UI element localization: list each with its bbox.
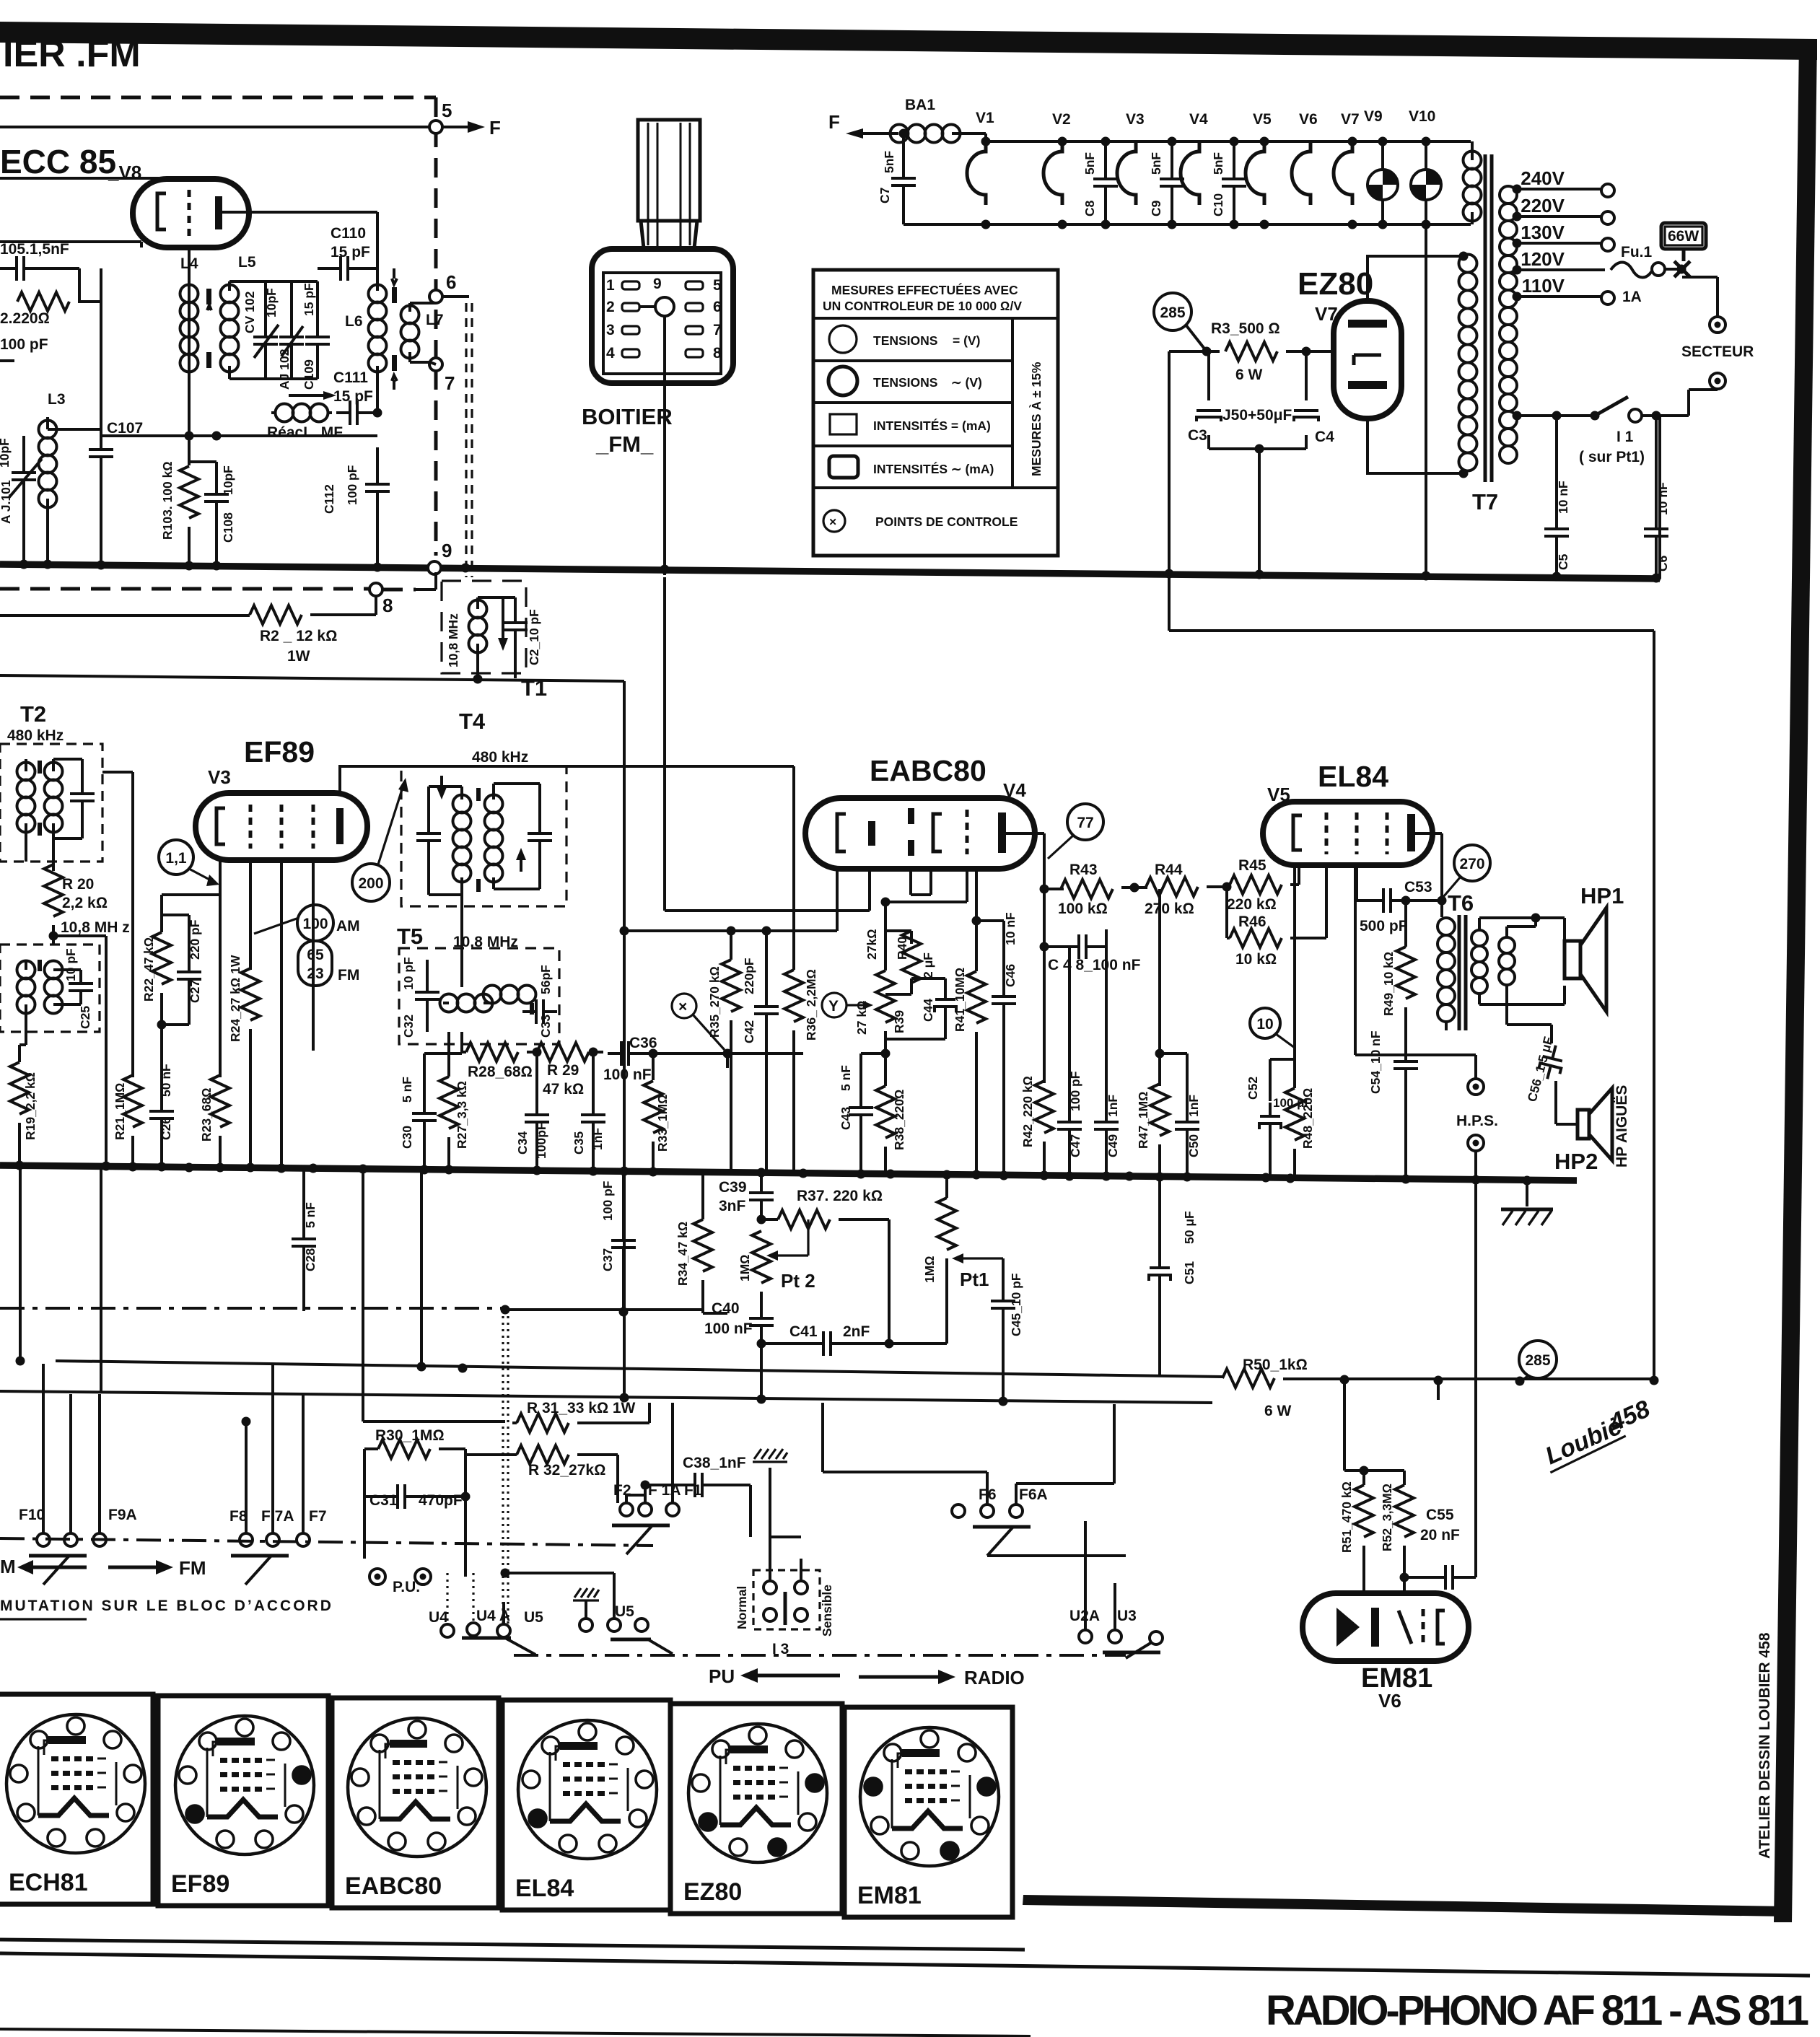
- svg-text:1W: 1W: [287, 648, 310, 665]
- svg-text:8: 8: [382, 595, 393, 616]
- svg-text:R52_3,3MΩ: R52_3,3MΩ: [1380, 1484, 1394, 1551]
- wire C36 node down: [726, 1053, 729, 1068]
- svg-text:3nF: 3nF: [719, 1198, 746, 1214]
- svg-text:Y: Y: [828, 998, 839, 1015]
- wire B+ node: [1169, 351, 1220, 570]
- svg-text:5nF: 5nF: [1082, 152, 1097, 175]
- svg-text:C31: C31: [369, 1492, 398, 1509]
- wire row3 R31: [363, 1420, 505, 1423]
- svg-text:4: 4: [606, 345, 615, 362]
- svg-text:20 nF: 20 nF: [1420, 1527, 1460, 1543]
- wire dashed FM-box top edge: [0, 96, 436, 100]
- svg-text:C109: C109: [302, 359, 316, 390]
- bottom-left rule line: [0, 2029, 1031, 2036]
- svg-text:EL84: EL84: [1318, 760, 1388, 793]
- svg-text:V3: V3: [208, 766, 231, 788]
- svg-text:R3_500 Ω: R3_500 Ω: [1211, 320, 1280, 337]
- svg-text:100 kΩ: 100 kΩ: [1058, 901, 1108, 917]
- svg-text:C39: C39: [719, 1179, 747, 1196]
- svg-text:HP AIGUËS: HP AIGUËS: [1614, 1085, 1630, 1168]
- svg-text:INTENSITÉS = (mA): INTENSITÉS = (mA): [873, 418, 991, 433]
- svg-text:MESURES EFFECTUÉES AVEC: MESURES EFFECTUÉES AVEC: [831, 282, 1018, 297]
- svg-text:EF89: EF89: [171, 1870, 229, 1898]
- wire EZ80 plate to T7: [1368, 256, 1464, 301]
- wire switch risers: [363, 1169, 421, 1421]
- svg-text:MESURES À ± 15%: MESURES À ± 15%: [1028, 362, 1044, 476]
- right border bar: [1774, 41, 1817, 1922]
- wire dashed AM line: [0, 587, 369, 591]
- svg-text:1A: 1A: [1622, 289, 1642, 305]
- svg-text:MUTATION SUR LE BLOC D’ACC: MUTATION SUR LE BLOC D’ACCORD: [0, 1598, 333, 1614]
- svg-text:F: F: [489, 117, 501, 139]
- svg-text:C2_10 pF: C2_10 pF: [527, 609, 541, 665]
- svg-text:100 nF: 100 nF: [603, 1066, 652, 1083]
- svg-text:RADIO: RADIO: [964, 1667, 1025, 1688]
- svg-text:100 nF: 100 nF: [704, 1320, 753, 1337]
- ground symbol: [1526, 1180, 1528, 1206]
- svg-text:TENSIONS: TENSIONS: [873, 333, 937, 348]
- wire riser to EM81 area: [1124, 1554, 1127, 1557]
- svg-text:C7: C7: [878, 188, 892, 203]
- svg-text:EM81: EM81: [1361, 1663, 1432, 1694]
- svg-text:F 1A: F 1A: [648, 1482, 681, 1499]
- svg-text:480 kHz: 480 kHz: [7, 727, 64, 744]
- dash-dot PU-RADIO link: [514, 1654, 1126, 1657]
- bottom rule line B: [0, 1953, 1810, 1976]
- svg-text:15 pF: 15 pF: [331, 244, 370, 260]
- svg-text:R45: R45: [1238, 857, 1266, 874]
- svg-text:220pF: 220pF: [742, 958, 756, 994]
- svg-text:C3: C3: [1188, 427, 1207, 444]
- svg-text:R24_27 kΩ 1W: R24_27 kΩ 1W: [228, 955, 242, 1042]
- svg-text:R103. 100 kΩ: R103. 100 kΩ: [160, 461, 175, 540]
- svg-text:220 kΩ: 220 kΩ: [1227, 896, 1277, 913]
- wire T2 to grid line: [102, 772, 133, 1077]
- svg-text:ECC 85: ECC 85: [0, 143, 116, 180]
- measure circle 77: [1067, 804, 1103, 840]
- svg-text:×: ×: [678, 999, 687, 1015]
- svg-text:6: 6: [446, 271, 456, 293]
- svg-text:C33: C33: [538, 1015, 553, 1038]
- svg-text:R49_10 kΩ: R49_10 kΩ: [1381, 952, 1396, 1016]
- tube socket EZ80: [670, 1704, 842, 1914]
- svg-text:V5: V5: [1253, 111, 1272, 128]
- svg-text:C25: C25: [78, 1006, 92, 1029]
- wire mech link row: [0, 1307, 505, 1310]
- svg-text:A J.101: A J.101: [0, 480, 13, 524]
- svg-text:L3: L3: [48, 391, 66, 408]
- svg-text:50 μF: 50 μF: [1182, 1211, 1196, 1244]
- svg-text:U5: U5: [524, 1609, 543, 1626]
- node 8: [369, 583, 382, 596]
- svg-text:EABC80: EABC80: [870, 754, 986, 787]
- svg-text:1: 1: [606, 277, 615, 294]
- svg-text:1,1: 1,1: [165, 850, 187, 867]
- wire long vertical from bus2: [623, 681, 626, 1399]
- svg-text:R30_1MΩ: R30_1MΩ: [375, 1427, 445, 1444]
- svg-text:T6: T6: [1448, 890, 1474, 916]
- measure circle 200: [352, 864, 390, 901]
- svg-text:HP1: HP1: [1580, 883, 1624, 908]
- svg-text:2nF: 2nF: [843, 1323, 870, 1340]
- svg-text:10 kΩ: 10 kΩ: [1235, 951, 1277, 968]
- inner frame bottom-right thick line: [1023, 1895, 1788, 1916]
- svg-text:100 pF: 100 pF: [600, 1180, 615, 1221]
- top border bar: [0, 22, 1817, 60]
- svg-text:10pF: 10pF: [0, 438, 12, 468]
- svg-text:7: 7: [445, 372, 455, 394]
- svg-text:C37: C37: [600, 1248, 615, 1271]
- tap 240V: [1517, 188, 1601, 190]
- svg-text:10: 10: [1256, 1016, 1273, 1033]
- svg-text:R35_270 kΩ: R35_270 kΩ: [707, 966, 722, 1038]
- signature Loubier 458: [1537, 1395, 1657, 1472]
- svg-text:480 kHz: 480 kHz: [472, 749, 528, 766]
- bottom rule line A: [0, 1940, 1025, 1950]
- wire F output line: [0, 126, 429, 128]
- svg-text:Pt1: Pt1: [960, 1269, 989, 1290]
- wire triode grid down: [966, 869, 968, 902]
- svg-text:V2: V2: [1052, 111, 1071, 128]
- svg-text:R33_1MΩ: R33_1MΩ: [655, 1094, 670, 1152]
- svg-text:V6: V6: [1378, 1690, 1401, 1712]
- node 7: [429, 358, 442, 371]
- svg-text:R50_1kΩ: R50_1kΩ: [1243, 1357, 1308, 1373]
- svg-text:L6: L6: [345, 313, 363, 330]
- svg-text:M: M: [0, 1556, 16, 1577]
- connector BOITIER FM body: [592, 249, 733, 383]
- svg-text:FM: FM: [338, 967, 359, 984]
- svg-text:AM: AM: [336, 918, 360, 934]
- tube socket EF89: [158, 1696, 328, 1906]
- core marks between L6 L7: [392, 287, 397, 303]
- measure circle 285: [1154, 293, 1191, 330]
- svg-text:BA1: BA1: [905, 97, 935, 113]
- wire node6 right: [442, 295, 469, 298]
- mechanical link dotted vertical: [503, 1310, 508, 1628]
- switch I3 Normal Sensible: [753, 1570, 820, 1629]
- svg-text:J50+50μF: J50+50μF: [1222, 407, 1292, 424]
- svg-text:POINTS DE CONTROLE: POINTS DE CONTROLE: [875, 514, 1018, 529]
- svg-text:R 29: R 29: [547, 1062, 579, 1079]
- wire EF89 screen down: [280, 860, 283, 1168]
- terminal PU left: [369, 1569, 385, 1585]
- svg-text:C4: C4: [1315, 429, 1334, 445]
- svg-text:5nF: 5nF: [1211, 152, 1225, 175]
- svg-text:F 7A: F 7A: [261, 1508, 294, 1525]
- svg-text:IER .FM: IER .FM: [3, 33, 141, 75]
- wire top coupling: [48, 428, 101, 431]
- wire audio row1: [56, 1361, 1222, 1377]
- svg-text:U4 A: U4 A: [476, 1608, 510, 1624]
- node 9: [428, 561, 441, 574]
- wire ECC85 cathode to left: [0, 242, 141, 247]
- svg-text:U5: U5: [615, 1603, 634, 1620]
- svg-text:R47_1MΩ: R47_1MΩ: [1136, 1091, 1150, 1149]
- svg-text:INTENSITÉS ∼ (mA): INTENSITÉS ∼ (mA): [873, 461, 994, 476]
- wire grid tap: [162, 873, 220, 915]
- svg-text:L7: L7: [426, 312, 444, 328]
- svg-text:C9: C9: [1149, 200, 1163, 216]
- measure circle 285: [1519, 1341, 1557, 1378]
- svg-text:23: 23: [307, 965, 323, 982]
- tube socket EL84: [502, 1700, 670, 1910]
- svg-text:T4: T4: [459, 709, 486, 734]
- measure circle 270: [1454, 845, 1490, 881]
- svg-text:10,8 MH z: 10,8 MH z: [61, 919, 130, 936]
- svg-text:UN CONTROLEUR DE 10 000 Ω/V: UN CONTROLEUR DE 10 000 Ω/V: [823, 299, 1022, 313]
- svg-text:R36_ 2,2MΩ: R36_ 2,2MΩ: [804, 969, 818, 1041]
- svg-text:65: 65: [307, 947, 324, 963]
- svg-text:100 pF: 100 pF: [345, 465, 359, 505]
- wire B+ feed frame: [1169, 570, 1654, 1380]
- svg-text:×: ×: [829, 514, 836, 529]
- svg-text:C43: C43: [839, 1107, 853, 1130]
- svg-text:27 kΩ: 27 kΩ: [854, 1000, 869, 1035]
- wire ECC85 grid to left: [0, 177, 159, 180]
- svg-text:∼ (V): ∼ (V): [951, 375, 982, 390]
- svg-text:47 kΩ: 47 kΩ: [543, 1081, 584, 1098]
- svg-text:6 W: 6 W: [1264, 1403, 1292, 1419]
- svg-text:EM81: EM81: [857, 1882, 922, 1909]
- svg-text:77: 77: [1077, 815, 1093, 831]
- svg-text:470pF: 470pF: [419, 1492, 463, 1509]
- resistor R2 12k 1W: [0, 614, 250, 617]
- svg-text:9: 9: [653, 276, 662, 292]
- svg-text:8: 8: [713, 345, 722, 362]
- svg-text:C32: C32: [401, 1015, 416, 1038]
- svg-text:F7: F7: [309, 1508, 327, 1525]
- svg-text:1MΩ: 1MΩ: [738, 1254, 752, 1282]
- svg-text:285: 285: [1525, 1352, 1550, 1369]
- svg-text:ECH81: ECH81: [9, 1869, 88, 1896]
- dash-dot FM link left: [0, 1538, 653, 1546]
- svg-text:2,2 kΩ: 2,2 kΩ: [62, 895, 108, 911]
- tube socket EM81: [844, 1707, 1012, 1917]
- measure circle 100 AM: [297, 905, 333, 941]
- svg-text:V7: V7: [1341, 111, 1360, 128]
- svg-text:C110: C110: [331, 225, 366, 242]
- svg-text:R37. 220 kΩ: R37. 220 kΩ: [797, 1188, 883, 1204]
- tap 110V: [1517, 295, 1601, 298]
- svg-text:3: 3: [606, 322, 615, 338]
- svg-text:105.1,5nF: 105.1,5nF: [0, 241, 69, 258]
- svg-text:2: 2: [606, 299, 615, 315]
- svg-text:10 pF: 10 pF: [401, 957, 416, 990]
- svg-text:C54_10 nF: C54_10 nF: [1368, 1030, 1383, 1094]
- svg-text:5nF: 5nF: [882, 151, 896, 173]
- svg-text:EZ80: EZ80: [683, 1878, 742, 1906]
- svg-text:100: 100: [302, 916, 328, 932]
- ground hatch small: [753, 1449, 787, 1462]
- svg-text:F6A: F6A: [1019, 1486, 1048, 1503]
- svg-text:F1: F1: [684, 1482, 702, 1499]
- svg-text:R34_47 kΩ: R34_47 kΩ: [675, 1222, 690, 1286]
- svg-text:RADIO-PHONO AF 811 - AS 811: RADIO-PHONO AF 811 - AS 811: [1266, 1987, 1810, 2034]
- wire EF89 anode to T4: [340, 766, 794, 793]
- wire grid down: [188, 247, 191, 268]
- wire C3 C4 bottoms: [1209, 449, 1306, 570]
- terminal HPS top: [1468, 1079, 1484, 1095]
- svg-text:HP2: HP2: [1554, 1149, 1598, 1174]
- svg-text:F: F: [828, 111, 840, 133]
- wire EL84 anode: [1415, 833, 1442, 917]
- svg-text:R44: R44: [1155, 862, 1183, 878]
- svg-text:C52: C52: [1246, 1077, 1260, 1100]
- svg-text:5 nF: 5 nF: [839, 1065, 853, 1091]
- svg-text:V3: V3: [1126, 111, 1145, 128]
- tap 130V: [1517, 242, 1601, 245]
- svg-text:C30: C30: [400, 1126, 414, 1149]
- control point Y: [822, 993, 846, 1017]
- svg-text:V10: V10: [1409, 108, 1435, 125]
- svg-text:RéacL. MF: RéacL. MF: [267, 424, 343, 441]
- transformer T7 primary top coil: [1464, 152, 1482, 222]
- legend box MESURES: [813, 270, 1058, 556]
- svg-text:SECTEUR: SECTEUR: [1681, 343, 1754, 360]
- tube EM81 V6 magic eye: [1303, 1593, 1469, 1661]
- svg-text:Normal: Normal: [735, 1586, 749, 1629]
- wire EL84 g3 to HPS: [1355, 865, 1476, 1079]
- wire riser U2A: [1084, 1521, 1087, 1523]
- svg-text:C112: C112: [322, 484, 336, 514]
- svg-text:R 32_27kΩ: R 32_27kΩ: [528, 1462, 605, 1479]
- svg-text:L4: L4: [180, 255, 198, 272]
- tap 220V: [1517, 215, 1601, 218]
- wire af grid return: [624, 929, 837, 932]
- wire riser HPS to C55: [1474, 1180, 1477, 1577]
- control point X: [672, 994, 696, 1018]
- svg-text:R28_68Ω: R28_68Ω: [468, 1064, 533, 1080]
- svg-text:15 pF: 15 pF: [302, 283, 316, 316]
- heater chain bottom wire: [904, 223, 1471, 226]
- svg-text:R41_10MΩ: R41_10MΩ: [953, 968, 967, 1032]
- svg-text:= (V): = (V): [953, 333, 980, 348]
- main HT bus wire: [0, 564, 1660, 579]
- resistor 2.220 ohm (cut left): [17, 292, 69, 311]
- svg-text:F9A: F9A: [108, 1507, 137, 1523]
- IF trap T1: [442, 581, 526, 673]
- svg-text:BOITIER: BOITIER: [582, 404, 673, 429]
- svg-text:6: 6: [713, 299, 722, 315]
- svg-text:CV 102: CV 102: [242, 291, 257, 333]
- coil React MF: [276, 404, 328, 422]
- tube socket EABC80: [332, 1698, 499, 1908]
- svg-text:C 4 8_100 nF: C 4 8_100 nF: [1048, 957, 1141, 973]
- svg-text:500 pF: 500 pF: [1360, 918, 1408, 934]
- svg-text:V6: V6: [1299, 111, 1318, 128]
- svg-text:C41: C41: [789, 1323, 818, 1340]
- svg-text:F10: F10: [19, 1507, 45, 1523]
- wire diode plates up: [911, 869, 931, 895]
- fuse rating box 66W: [1661, 223, 1706, 249]
- svg-text:1MΩ: 1MΩ: [922, 1256, 937, 1283]
- wire EL84 cathode down: [1270, 865, 1295, 1101]
- terminal SECTEUR 2: [1710, 373, 1725, 389]
- svg-text:7: 7: [713, 322, 722, 338]
- svg-text:5 nF: 5 nF: [400, 1077, 414, 1103]
- svg-text:10 pF: 10 pF: [64, 948, 78, 981]
- wire det2: [665, 869, 870, 911]
- svg-text:C38_1nF: C38_1nF: [683, 1455, 746, 1471]
- svg-text:T5: T5: [397, 924, 423, 949]
- svg-text:C53: C53: [1404, 879, 1432, 895]
- wire EF89 g3 down: [312, 860, 315, 1051]
- svg-text:_FM_: _FM_: [595, 432, 654, 457]
- svg-text:EF89: EF89: [244, 735, 315, 768]
- svg-text:L5: L5: [238, 254, 256, 271]
- svg-text:6 W: 6 W: [1235, 367, 1263, 383]
- svg-text:240V: 240V: [1521, 167, 1565, 189]
- junction dots on HT bus: [19, 560, 29, 569]
- wire pin9 down to bus: [663, 316, 666, 575]
- svg-text:285: 285: [1160, 305, 1185, 321]
- tube socket ECH81: [0, 1694, 153, 1904]
- wire EZ80 cathode down: [1368, 419, 1464, 473]
- svg-text:200: 200: [358, 875, 383, 892]
- tap 120V: [1517, 268, 1605, 271]
- wire det diode down: [836, 869, 839, 931]
- svg-text:10,8 MHz: 10,8 MHz: [446, 613, 460, 667]
- wire T4 right down: [792, 766, 795, 970]
- svg-text:C10: C10: [1211, 193, 1225, 216]
- svg-text:R39: R39: [892, 1010, 906, 1033]
- svg-text:R42_220 kΩ: R42_220 kΩ: [1020, 1076, 1035, 1147]
- svg-text:9: 9: [442, 540, 452, 561]
- svg-text:EZ80: EZ80: [1298, 266, 1373, 302]
- svg-text:H.P.S.: H.P.S.: [1456, 1113, 1498, 1129]
- svg-text:R2 _ 12 kΩ: R2 _ 12 kΩ: [260, 628, 337, 644]
- wire ECC85 anode right: [219, 212, 377, 268]
- transformer T7 secondary coil: [1500, 186, 1517, 463]
- svg-text:I 1: I 1: [1616, 429, 1634, 445]
- svg-text:C34: C34: [515, 1131, 530, 1155]
- svg-text:U3: U3: [1117, 1608, 1137, 1624]
- X mark mains: [1674, 249, 1690, 277]
- svg-text:R43: R43: [1069, 862, 1098, 878]
- svg-text:PU: PU: [709, 1665, 735, 1687]
- svg-text:270 kΩ: 270 kΩ: [1145, 901, 1194, 917]
- svg-text:V4: V4: [1189, 111, 1208, 128]
- node 6: [429, 290, 442, 303]
- svg-text:R51_470 kΩ: R51_470 kΩ: [1339, 1481, 1354, 1553]
- switch I1 sur Pt1: [1517, 414, 1595, 417]
- svg-text:C40: C40: [712, 1300, 740, 1317]
- svg-text:5: 5: [442, 100, 452, 121]
- terminal HPS bottom: [1468, 1135, 1484, 1151]
- wire to SECTEUR: [1682, 277, 1718, 316]
- svg-text:TENSIONS: TENSIONS: [873, 375, 937, 390]
- svg-text:C35: C35: [572, 1131, 586, 1155]
- svg-text:C42: C42: [742, 1020, 756, 1043]
- svg-text:100 pF: 100 pF: [0, 336, 48, 353]
- svg-text:C8: C8: [1082, 200, 1097, 216]
- svg-text:V9: V9: [1364, 108, 1383, 125]
- svg-text:270: 270: [1459, 856, 1484, 872]
- svg-text:2 μF: 2 μF: [921, 952, 935, 978]
- wire riser left: [20, 1166, 101, 1393]
- svg-text:EL84: EL84: [515, 1875, 574, 1902]
- svg-text:C45_10 pF: C45_10 pF: [1009, 1273, 1023, 1336]
- wire arrow to F: [442, 126, 468, 128]
- svg-text:R 31_33 kΩ 1W: R 31_33 kΩ 1W: [527, 1400, 636, 1416]
- svg-text:220V: 220V: [1521, 195, 1565, 216]
- svg-text:C111: C111: [333, 369, 368, 386]
- wire T4 to T5: [460, 895, 463, 948]
- svg-text:Fu.1: Fu.1: [1621, 244, 1652, 260]
- svg-text:2.220Ω: 2.220Ω: [0, 310, 50, 327]
- svg-text:15 pF: 15 pF: [333, 388, 373, 405]
